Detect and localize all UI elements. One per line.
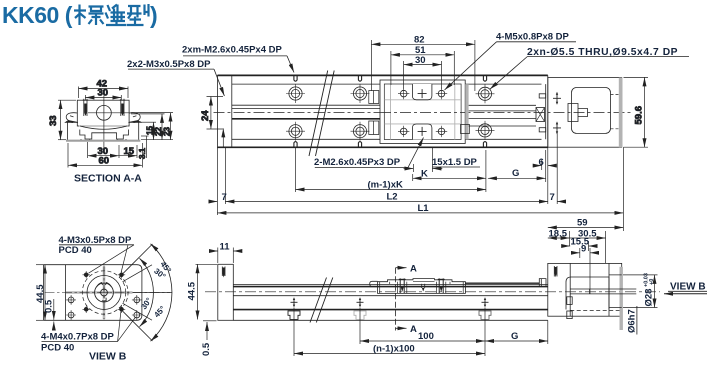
nub marker 2 bbox=[357, 297, 364, 307]
carriage slot bottom bbox=[412, 124, 432, 140]
section vertical centerline bbox=[103, 96, 105, 153]
dim 100 bbox=[360, 340, 485, 342]
boss lines bbox=[609, 275, 622, 308]
svg-text:44.5: 44.5 bbox=[187, 281, 198, 300]
svg-text:G: G bbox=[512, 168, 519, 179]
gray crosshair bbox=[66, 267, 133, 320]
dim 44.5 bottom view bbox=[196, 264, 218, 319]
dim D28 bbox=[623, 275, 658, 308]
dim (m-1)xK bbox=[296, 189, 486, 191]
carriage body bbox=[380, 80, 465, 144]
side tab right bbox=[461, 125, 470, 134]
left wing bbox=[66, 113, 78, 123]
right wing notch bbox=[133, 121, 139, 122]
svg-text:A: A bbox=[410, 264, 417, 275]
motor gray band bbox=[619, 77, 623, 147]
pilot circle bbox=[87, 276, 121, 310]
angle text 30 bottom bbox=[139, 296, 153, 311]
section cut A-A dashed bbox=[395, 268, 397, 331]
svg-text:0.5: 0.5 bbox=[44, 299, 55, 313]
bottom dims: label 2-M2.6 bbox=[314, 157, 401, 168]
svg-text:24: 24 bbox=[200, 110, 211, 121]
edge slots top bbox=[294, 75, 487, 81]
dim D6h7 bbox=[636, 306, 638, 335]
dim 0.5 bottom bbox=[203, 321, 217, 340]
svg-text:30: 30 bbox=[98, 88, 109, 99]
T-nub 3 bbox=[479, 311, 491, 320]
body bottom thick bbox=[233, 309, 548, 311]
svg-text:18.5: 18.5 bbox=[549, 228, 568, 239]
dim 33 bbox=[58, 100, 76, 140]
dim 30 top bbox=[85, 95, 121, 100]
label 4-M3 bbox=[59, 235, 133, 246]
15 slot arrows bbox=[404, 148, 443, 172]
dim 9 bbox=[579, 248, 581, 258]
label 4-M4 bbox=[41, 332, 115, 343]
svg-text:2xm-M2.6x0.45Px4 DP: 2xm-M2.6x0.45Px4 DP bbox=[182, 45, 282, 56]
carriage inner outline bbox=[384, 84, 461, 140]
ballscrew shaft top line bbox=[465, 282, 539, 284]
svg-text:2x2-M3x0.5Px8 DP: 2x2-M3x0.5Px8 DP bbox=[127, 59, 211, 70]
motor block bottom view bbox=[548, 263, 622, 316]
CJK glyph 準 bbox=[106, 5, 127, 26]
svg-text:15x1.5 DP: 15x1.5 DP bbox=[432, 157, 478, 168]
svg-text:59.6: 59.6 bbox=[634, 106, 645, 125]
break lines bottom bbox=[310, 278, 333, 323]
motor screw cross top bbox=[553, 93, 561, 104]
rail line y84 bbox=[232, 83, 542, 85]
rail hole c1 top bbox=[286, 84, 305, 103]
carriage hole 4 bbox=[436, 126, 447, 137]
svg-text:100: 100 bbox=[418, 331, 434, 342]
dim 51 bbox=[391, 51, 454, 85]
label VIEW B bbox=[89, 351, 127, 363]
svg-text:15: 15 bbox=[124, 146, 135, 157]
svg-text:82: 82 bbox=[414, 35, 425, 46]
fan radial 45 up bbox=[119, 244, 153, 278]
M4 hole 3 bbox=[66, 310, 76, 320]
CJK glyph 型 bbox=[127, 4, 149, 25]
rail line y108 left bbox=[232, 107, 380, 109]
right wing bbox=[129, 113, 141, 123]
svg-text:4-M5x0.8Px8 DP: 4-M5x0.8Px8 DP bbox=[496, 32, 570, 43]
dim 0.5 viewb bbox=[53, 299, 55, 328]
fan radial 0 bbox=[133, 292, 172, 294]
rail hole c1 bottom bbox=[286, 122, 305, 141]
motor shaft blocks bbox=[568, 104, 588, 122]
svg-text:G: G bbox=[511, 331, 518, 342]
svg-text:59: 59 bbox=[577, 218, 588, 229]
end cap tab top bbox=[539, 94, 546, 98]
angle text 45 bottom bbox=[152, 304, 167, 319]
dim 11 bbox=[210, 248, 242, 264]
dim 82 bbox=[371, 40, 475, 91]
M3 bolt dot 2 bbox=[118, 271, 125, 278]
leaders 4-M3 bbox=[89, 245, 135, 273]
leader 4-M5 bbox=[445, 42, 497, 90]
fan dashed arc bbox=[124, 279, 129, 306]
screw left bbox=[83, 99, 89, 116]
dim 15 bottom bbox=[119, 145, 137, 158]
svg-text:+0: +0 bbox=[649, 279, 655, 285]
carriage centerline bbox=[380, 112, 465, 114]
bottom notch bbox=[102, 298, 106, 301]
TITLE bbox=[2, 2, 158, 28]
motor flange line bbox=[569, 263, 571, 316]
motor rounded body bbox=[572, 88, 611, 134]
dim 30.5 bbox=[605, 231, 607, 263]
dim 7 right bbox=[557, 201, 566, 203]
dim 3.1 bbox=[141, 136, 149, 158]
centerline bottom view bbox=[205, 291, 660, 293]
motor body rounded bbox=[566, 277, 609, 310]
carriage top plate bbox=[77, 100, 129, 126]
motor dashed stubs bbox=[611, 94, 619, 128]
dim 15 right bbox=[141, 122, 157, 140]
angle text 30 top bbox=[152, 266, 167, 281]
angle fan outer arc bbox=[151, 244, 172, 341]
dim L2 bbox=[225, 201, 547, 203]
dim (n-1)x100 bbox=[294, 353, 485, 355]
BOTTOM SIDE VIEW bbox=[187, 241, 707, 356]
slot bottom cross bbox=[418, 127, 427, 136]
svg-text:K: K bbox=[421, 169, 428, 180]
side tab bottom-left bbox=[369, 121, 379, 135]
carriage hole 3 bbox=[398, 126, 409, 137]
svg-text:(m-1)xK: (m-1)xK bbox=[368, 180, 404, 191]
dim 18.5 bbox=[569, 231, 571, 246]
screw right bbox=[120, 99, 126, 116]
body top thin bbox=[233, 283, 548, 285]
carriage screw left bbox=[398, 278, 407, 293]
M3 bolt dot 4 bbox=[118, 306, 125, 313]
rail line y139 bbox=[232, 138, 542, 140]
svg-text:6: 6 bbox=[539, 157, 544, 168]
edge slots bottom bbox=[294, 142, 487, 148]
rail hole c4 bottom bbox=[476, 121, 495, 140]
label 15x1.5 DP bbox=[432, 157, 478, 168]
dim K bbox=[413, 177, 486, 179]
base inner steps bbox=[80, 130, 129, 140]
inner recess circle bbox=[95, 283, 114, 302]
shaft end bracket bbox=[539, 279, 546, 287]
svg-text:30°: 30° bbox=[139, 296, 153, 311]
TOP PLAN VIEW bbox=[127, 32, 689, 232]
svg-text:(n-1)x100: (n-1)x100 bbox=[373, 344, 415, 355]
carriage hole 2 bbox=[436, 88, 447, 99]
label 2x2-M3 bbox=[127, 59, 211, 70]
CJK glyph 標 bbox=[74, 5, 104, 26]
motor inner vertical bbox=[608, 263, 610, 316]
dim 42 bbox=[79, 87, 129, 99]
M4 hole 4 bbox=[132, 310, 142, 320]
fan radial 30 up bbox=[123, 265, 153, 282]
ballscrew lines right bbox=[469, 105, 536, 126]
carriage bottom curve bbox=[80, 126, 127, 129]
svg-text:0.5: 0.5 bbox=[201, 342, 212, 356]
ext verticals bottom view bbox=[294, 308, 548, 357]
leader 2xn bbox=[490, 57, 528, 90]
svg-text:PCD 40: PCD 40 bbox=[41, 343, 74, 354]
dim L1 bbox=[217, 212, 623, 214]
ballscrew circle bbox=[97, 105, 112, 120]
M4 hole 1 bbox=[66, 295, 76, 305]
dim 59 bbox=[548, 227, 624, 229]
svg-text:7: 7 bbox=[222, 192, 227, 203]
shaft thin line bbox=[465, 286, 539, 288]
M3 bolt dot 3 bbox=[83, 306, 90, 313]
left block screw bbox=[222, 267, 225, 278]
dim 30 carriage bbox=[404, 61, 442, 89]
svg-text:23: 23 bbox=[163, 127, 172, 136]
right end plate lines bbox=[546, 75, 548, 147]
flange small square top bbox=[567, 297, 572, 305]
angle text 45 top bbox=[158, 260, 173, 275]
base feet bbox=[81, 139, 126, 141]
svg-text:): ) bbox=[150, 2, 158, 28]
dim 60 bbox=[68, 143, 142, 168]
keyway hooks bbox=[97, 283, 112, 288]
A top arrow bbox=[396, 267, 402, 269]
svg-text:KK60 (: KK60 ( bbox=[2, 2, 73, 28]
dim 24 bbox=[207, 97, 224, 148]
body top thick bbox=[233, 286, 548, 288]
MID DIMENSIONS bbox=[548, 218, 624, 295]
svg-text:PCD 40: PCD 40 bbox=[59, 245, 92, 256]
label 4-M5 bbox=[496, 32, 570, 43]
dim 23 right bbox=[131, 113, 173, 140]
flange inner vertical bbox=[65, 265, 67, 321]
svg-text:A: A bbox=[410, 324, 417, 335]
leader 2-M2.6 bbox=[408, 138, 424, 168]
shaft ticks bbox=[99, 287, 109, 297]
dim 7 left bbox=[209, 201, 217, 203]
centerline horizontal bbox=[45, 292, 171, 294]
slot top cross bbox=[418, 89, 427, 98]
rail thick y118.8 left bbox=[232, 118, 380, 120]
left end block bbox=[218, 75, 232, 147]
svg-text:60: 60 bbox=[99, 156, 110, 167]
svg-text:30: 30 bbox=[415, 55, 426, 66]
rail hole c2 bottom bbox=[351, 122, 370, 141]
body outline thick bottom bbox=[218, 146, 548, 148]
svg-text:9: 9 bbox=[581, 243, 586, 254]
PCD 40 dashed circle bbox=[82, 271, 125, 314]
label 2xn bbox=[527, 47, 678, 58]
T-nub 2 bbox=[354, 311, 366, 320]
carriage gray face lines bbox=[384, 84, 461, 140]
fan radial 30 down bbox=[123, 303, 153, 320]
svg-text:2-M2.6x0.45Px3 DP: 2-M2.6x0.45Px3 DP bbox=[314, 157, 401, 168]
shaft circle bbox=[101, 289, 108, 296]
dim 30 bottom bbox=[88, 142, 119, 158]
A bottom arrow bbox=[396, 327, 402, 329]
svg-text:VIEW B: VIEW B bbox=[89, 351, 127, 363]
base block bbox=[65, 122, 142, 140]
motor gray band bottom bbox=[620, 267, 623, 330]
svg-text:33: 33 bbox=[48, 115, 59, 126]
body outline thick top bbox=[218, 74, 548, 76]
centerline vertical bbox=[103, 266, 105, 320]
dim 22 right bbox=[131, 114, 165, 140]
view b underline bbox=[668, 290, 707, 292]
svg-text:Ø28: Ø28 bbox=[644, 289, 655, 307]
view b arrow bbox=[664, 293, 707, 295]
break lines bbox=[309, 71, 334, 157]
circle centerline horizontal bbox=[88, 112, 131, 114]
dim G bottom bbox=[485, 340, 548, 342]
svg-text:7: 7 bbox=[550, 192, 555, 203]
dim 15.5 bbox=[588, 241, 590, 251]
left end block bottom view bbox=[218, 264, 234, 320]
motor screw cross bottom bbox=[553, 122, 561, 133]
flange plate outline bbox=[44, 265, 142, 321]
svg-text:L2: L2 bbox=[387, 192, 398, 203]
svg-text:Ø6h7: Ø6h7 bbox=[627, 309, 638, 333]
base bottom thin bbox=[233, 319, 548, 321]
label VIEW B right bbox=[670, 281, 706, 292]
angle fan inner arc bbox=[140, 258, 154, 326]
VIEW B FLANGE bbox=[35, 235, 173, 362]
svg-text:VIEW B: VIEW B bbox=[670, 281, 706, 292]
rail line y105 left bbox=[232, 104, 380, 106]
svg-text:SECTION A-A: SECTION A-A bbox=[74, 173, 142, 185]
flange small square bottom bbox=[567, 311, 572, 319]
svg-text:L1: L1 bbox=[418, 203, 430, 214]
carriage center plateau line bbox=[413, 281, 435, 283]
M4 hole 2 bbox=[132, 295, 142, 305]
shaft nub left bbox=[370, 281, 378, 286]
shaft lines bbox=[570, 289, 636, 294]
T-nub 1 bbox=[288, 311, 300, 320]
motor block screw bbox=[554, 266, 557, 277]
body line under screw bbox=[233, 295, 548, 297]
carriage bottom gray line bbox=[79, 125, 128, 127]
carriage screw right bbox=[437, 278, 446, 293]
M3 bolt dot 1 bbox=[83, 271, 90, 278]
hidden dashed line bbox=[570, 309, 619, 311]
side tab top-left bbox=[369, 91, 379, 104]
rail hole c2 top bbox=[351, 84, 370, 103]
carriage inner edge lines bbox=[380, 282, 464, 294]
carriage center screw bbox=[422, 284, 425, 292]
carriage bottom view body bbox=[378, 279, 466, 294]
dim 6 bbox=[533, 165, 557, 167]
carriage hole 1 bbox=[398, 88, 409, 99]
base bottom gray thick bbox=[66, 140, 140, 142]
shaft tick bbox=[589, 289, 591, 294]
rail hole c4 top bbox=[476, 84, 495, 103]
fan radial 45 down bbox=[119, 308, 153, 342]
leader 2xm bbox=[287, 56, 294, 73]
dim 44.5 viewb bbox=[36, 265, 45, 321]
centerline top view bbox=[214, 112, 633, 114]
end cap tab bottom bbox=[539, 128, 546, 132]
label 2xm-M2.6 bbox=[182, 45, 282, 56]
svg-text:45°: 45° bbox=[152, 304, 167, 319]
ext verticals bottom bbox=[217, 133, 623, 231]
SECTION A-A VIEW bbox=[48, 79, 173, 185]
svg-text:4-M4x0.7Px8 DP: 4-M4x0.7Px8 DP bbox=[41, 332, 115, 343]
carriage slot top bbox=[412, 84, 432, 100]
gray band right of carriage bbox=[465, 84, 468, 139]
svg-text:3.1: 3.1 bbox=[138, 147, 147, 159]
nub marker 3 bbox=[482, 297, 489, 307]
motor mount block bbox=[548, 77, 622, 147]
dim G top bbox=[488, 177, 546, 179]
bearing cross bbox=[536, 108, 545, 122]
leaders 4-M4 bbox=[118, 312, 136, 342]
svg-text:11: 11 bbox=[220, 241, 231, 252]
bearing block bbox=[536, 108, 545, 122]
dim 59.6 bbox=[624, 77, 649, 147]
leader 2x2 bbox=[214, 69, 224, 96]
nub marker 1 bbox=[291, 297, 298, 307]
left wing notch bbox=[67, 121, 73, 122]
